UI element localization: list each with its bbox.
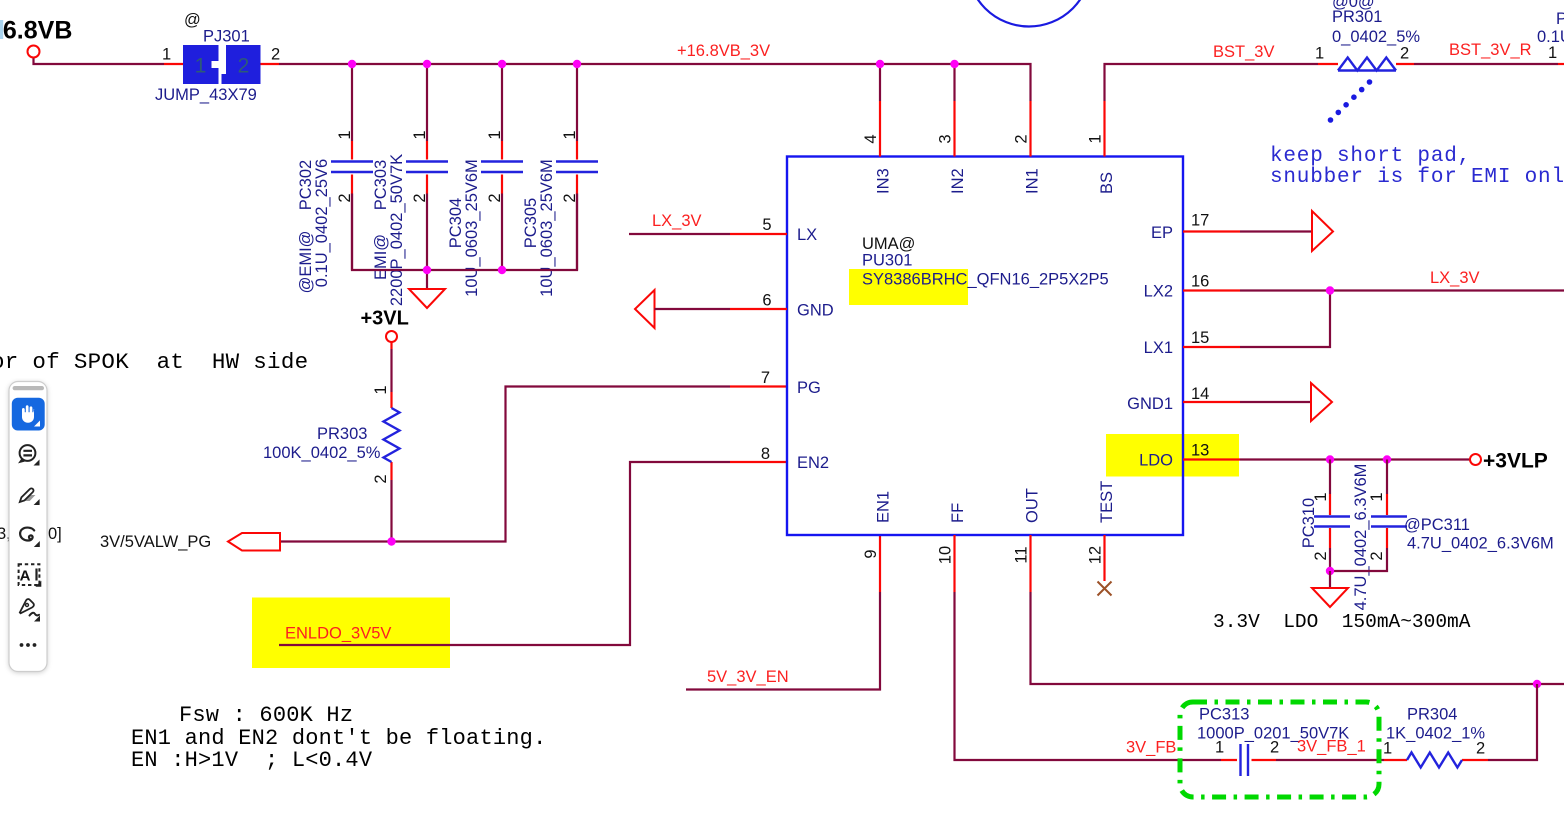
highlight LDO pin13 bbox=[1106, 434, 1239, 477]
svg-text:1K_0402_1%: 1K_0402_1% bbox=[1386, 725, 1485, 743]
toolbar lasso tool bbox=[20, 528, 40, 547]
svg-text:SY8386BRHC_QFN16_2P5X2P5: SY8386BRHC_QFN16_2P5X2P5 bbox=[862, 271, 1109, 289]
junction dots top rail bbox=[348, 60, 356, 68]
svg-text:keep short pad,: keep short pad, bbox=[1270, 145, 1471, 168]
svg-text:1: 1 bbox=[1548, 44, 1557, 62]
pin 14 GND1 wire and offpage arrow bbox=[1183, 383, 1332, 421]
svg-text:1: 1 bbox=[561, 130, 579, 139]
svg-text:15: 15 bbox=[1191, 329, 1209, 347]
pin 3 IN2 bbox=[953, 101, 955, 157]
svg-text:PG: PG bbox=[797, 379, 821, 397]
capacitor PC302 bbox=[297, 64, 373, 293]
svg-text:IN2: IN2 bbox=[949, 168, 967, 194]
junction PG/PR303 bbox=[387, 537, 395, 545]
wire PG net bbox=[280, 387, 730, 542]
svg-text:LX_3V: LX_3V bbox=[1430, 269, 1480, 287]
svg-text:1: 1 bbox=[162, 46, 171, 64]
toolbar more button bbox=[20, 643, 37, 647]
svg-text:2: 2 bbox=[1476, 740, 1485, 758]
op-amp U1 : IC PU301 body bbox=[787, 157, 1183, 536]
pin 4 IN3 bbox=[879, 101, 881, 157]
svg-text:BST_3V_R: BST_3V_R bbox=[1449, 41, 1532, 59]
svg-text:PU301: PU301 bbox=[862, 252, 912, 270]
svg-text:3V_FB_1: 3V_FB_1 bbox=[1297, 738, 1366, 756]
capacitor PC313 bbox=[1197, 706, 1349, 777]
capacitor PC304 bbox=[447, 64, 523, 297]
pin 12 TEST stub bbox=[1103, 535, 1105, 581]
svg-text:LX: LX bbox=[797, 226, 817, 244]
blue arc top bbox=[967, 0, 1091, 27]
svg-text:1: 1 bbox=[411, 130, 429, 139]
svg-text:7: 7 bbox=[761, 369, 770, 387]
toolbar drag handle bbox=[13, 386, 44, 390]
capacitor fragment right edge bbox=[1537, 10, 1564, 64]
green emphasis box around PC313 bbox=[1180, 702, 1379, 797]
svg-text:10U_0603_25V6M: 10U_0603_25V6M bbox=[463, 159, 481, 297]
power terminal +3VL bbox=[361, 308, 409, 350]
svg-text:3V_FB: 3V_FB bbox=[1126, 739, 1176, 757]
svg-text:4.7U_0402_6.3V6M: 4.7U_0402_6.3V6M bbox=[1407, 535, 1554, 553]
capacitor PC310 bbox=[1300, 460, 1370, 611]
svg-text:LX2: LX2 bbox=[1144, 283, 1173, 301]
wire FF / 3V_FB net bbox=[955, 535, 1222, 760]
svg-text:EP: EP bbox=[1151, 224, 1173, 242]
svg-text:JUMP_43X79: JUMP_43X79 bbox=[155, 86, 257, 104]
wire cap bottom rail bbox=[352, 194, 577, 271]
pin 5 LX bbox=[629, 212, 787, 234]
pin 17 EP wire and offpage arrow bbox=[1183, 211, 1333, 251]
svg-text:1: 1 bbox=[1312, 492, 1330, 501]
svg-text:+3VLP: +3VLP bbox=[1483, 450, 1548, 473]
jumper PJ301 bbox=[155, 11, 280, 104]
junction dots bottom rail bbox=[423, 266, 431, 274]
svg-text:BS: BS bbox=[1098, 172, 1116, 194]
wire EN2 net bbox=[279, 462, 730, 645]
toolbar panel bbox=[9, 382, 47, 672]
svg-text:2: 2 bbox=[1400, 45, 1409, 63]
highlight SY8386BRHC bbox=[849, 269, 968, 305]
wire EN1 / 5V_3V_EN net bbox=[879, 535, 881, 592]
svg-text:1: 1 bbox=[1383, 740, 1392, 758]
svg-text:13: 13 bbox=[1191, 442, 1209, 460]
pin 6 GND with offpage arrow bbox=[635, 290, 787, 328]
svg-text:1: 1 bbox=[1315, 45, 1324, 63]
junction PC310/PC311 bottom bbox=[1326, 567, 1334, 575]
svg-text:Fsw : 600K Hz: Fsw : 600K Hz bbox=[179, 703, 353, 728]
svg-text:UMA@: UMA@ bbox=[862, 235, 915, 253]
terminal +3VLP bbox=[1470, 450, 1548, 473]
svg-text:2: 2 bbox=[1368, 551, 1386, 560]
svg-text:PJ301: PJ301 bbox=[203, 28, 250, 46]
pin 15 LX1 wire bbox=[1183, 291, 1330, 348]
svg-text:2: 2 bbox=[486, 193, 504, 202]
svg-text:10U_0603_25V6M: 10U_0603_25V6M bbox=[538, 159, 556, 297]
svg-text:LX_3V: LX_3V bbox=[652, 212, 702, 230]
svg-text:11: 11 bbox=[1013, 546, 1031, 563]
svg-text:3.3V LDO 150mA~300mA: 3.3V LDO 150mA~300mA bbox=[1213, 611, 1471, 633]
svg-text:EN1: EN1 bbox=[875, 491, 893, 523]
svg-text:16: 16 bbox=[1191, 273, 1209, 291]
svg-text:0_0402_5%: 0_0402_5% bbox=[1332, 28, 1420, 46]
svg-text:1: 1 bbox=[195, 55, 207, 78]
svg-text:PR303: PR303 bbox=[317, 425, 367, 443]
svg-text:1: 1 bbox=[372, 385, 390, 394]
svg-text:2: 2 bbox=[372, 474, 390, 483]
svg-text:A: A bbox=[20, 568, 31, 585]
svg-text:snubber is for EMI only: snubber is for EMI only bbox=[1270, 166, 1564, 189]
svg-text:1: 1 bbox=[1368, 492, 1386, 501]
resistor PR303 bbox=[263, 349, 400, 542]
svg-text:2: 2 bbox=[238, 55, 250, 78]
net +16.8VB_3V wire bbox=[34, 58, 1031, 102]
svg-text:PC313: PC313 bbox=[1199, 706, 1249, 724]
svg-text:3: 3 bbox=[937, 134, 955, 143]
svg-text:6: 6 bbox=[762, 292, 771, 310]
wire PR304 to OUT junction bbox=[1488, 684, 1537, 760]
ground under PC310 bbox=[1312, 571, 1348, 607]
svg-text:@: @ bbox=[184, 11, 201, 29]
junction LX1/LX2 bbox=[1326, 286, 1334, 294]
svg-text:0.1U_0402_25V6: 0.1U_0402_25V6 bbox=[313, 159, 331, 287]
svg-text:+16.8VB_3V: +16.8VB_3V bbox=[677, 42, 770, 60]
svg-text:@PC311: @PC311 bbox=[1404, 516, 1470, 534]
toolbar pan tool active bbox=[12, 398, 45, 431]
no-connect cross pin 12 bbox=[1098, 582, 1112, 596]
toolbar signature pen tool bbox=[20, 599, 40, 621]
terminal +16.8VB bbox=[0, 17, 72, 58]
svg-text:5: 5 bbox=[762, 216, 771, 234]
svg-text:BST_3V: BST_3V bbox=[1213, 43, 1274, 61]
svg-text:IN1: IN1 bbox=[1024, 168, 1042, 194]
pin 16 LX2 wire bbox=[1183, 269, 1564, 291]
svg-text:LDO: LDO bbox=[1139, 452, 1173, 470]
resistor PR301 bbox=[1315, 0, 1420, 71]
svg-text:EN :H>1V ; L<0.4V: EN :H>1V ; L<0.4V bbox=[131, 748, 373, 773]
svg-text:9: 9 bbox=[862, 549, 880, 558]
svg-text:14: 14 bbox=[1191, 385, 1209, 403]
svg-text:ENLDO_3V5V: ENLDO_3V5V bbox=[285, 625, 391, 643]
svg-text:17: 17 bbox=[1191, 212, 1209, 230]
svg-text:GND1: GND1 bbox=[1127, 395, 1173, 413]
svg-text:1: 1 bbox=[336, 130, 354, 139]
svg-text:2200P_0402_50V7K: 2200P_0402_50V7K bbox=[388, 154, 406, 306]
svg-text:2: 2 bbox=[411, 193, 429, 202]
toolbar pencil tool bbox=[20, 488, 40, 505]
svg-text:2: 2 bbox=[1312, 551, 1330, 560]
svg-text:GND: GND bbox=[797, 302, 834, 320]
svg-text:5V_3V_EN: 5V_3V_EN bbox=[707, 668, 789, 686]
svg-text:+3VL: +3VL bbox=[361, 308, 409, 330]
svg-text:OUT: OUT bbox=[1024, 488, 1042, 523]
svg-text:TEST: TEST bbox=[1098, 481, 1116, 523]
toolbar text select tool bbox=[19, 564, 42, 587]
pin 13 LDO wire to +3VLP bbox=[1183, 458, 1470, 460]
svg-text:PR304: PR304 bbox=[1407, 706, 1457, 724]
svg-text:FF: FF bbox=[949, 503, 967, 523]
svg-text:1: 1 bbox=[1087, 134, 1105, 143]
svg-text:1: 1 bbox=[486, 130, 504, 139]
offpage connector 3V/5VALW_PG bbox=[100, 533, 280, 551]
svg-text:PC310: PC310 bbox=[1300, 498, 1318, 548]
svg-text:2: 2 bbox=[1270, 739, 1279, 757]
capacitor PC305 bbox=[522, 64, 598, 297]
resistor PR304 bbox=[1383, 706, 1488, 768]
svg-text:2: 2 bbox=[1013, 134, 1031, 143]
junction OUT net bbox=[1533, 680, 1541, 688]
svg-text:8: 8 bbox=[761, 445, 770, 463]
pin 2 IN1 bbox=[1029, 101, 1031, 157]
junction dots LDO net bbox=[1326, 455, 1334, 463]
svg-text:16.8VB: 16.8VB bbox=[0, 17, 72, 45]
toolbar comment tool bbox=[19, 445, 35, 463]
svg-text:1: 1 bbox=[1215, 739, 1224, 757]
svg-text:LX1: LX1 bbox=[1144, 339, 1173, 357]
pin 11 OUT wire bbox=[1031, 535, 1564, 684]
svg-text:IN3: IN3 bbox=[875, 168, 893, 194]
svg-text:4.7U_0402_6.3V6M: 4.7U_0402_6.3V6M bbox=[1352, 464, 1370, 611]
highlight ENLDO_3V5V bbox=[252, 598, 450, 669]
pin 1 BS bbox=[1103, 101, 1105, 157]
node BS wire bbox=[1105, 64, 1559, 101]
svg-text:2: 2 bbox=[271, 46, 280, 64]
svg-text:3V/5VALW_PG: 3V/5VALW_PG bbox=[100, 533, 211, 551]
svg-text:100K_0402_5%: 100K_0402_5% bbox=[263, 444, 381, 462]
capacitor PC311 bbox=[1330, 460, 1554, 572]
svg-text:10: 10 bbox=[937, 546, 955, 564]
capacitor PC303 bbox=[372, 64, 448, 306]
svg-text:PR301: PR301 bbox=[1332, 8, 1382, 26]
svg-text:PC: PC bbox=[1556, 10, 1564, 28]
wire cap to resistor bbox=[1276, 759, 1384, 761]
ground under PC303 bbox=[409, 270, 445, 308]
blue dotted measure line bbox=[1328, 79, 1373, 123]
svg-text:4: 4 bbox=[862, 134, 880, 143]
svg-text:or of SPOK at HW side: or of SPOK at HW side bbox=[0, 349, 308, 375]
svg-text:12: 12 bbox=[1087, 546, 1105, 564]
svg-text:EN2: EN2 bbox=[797, 454, 829, 472]
